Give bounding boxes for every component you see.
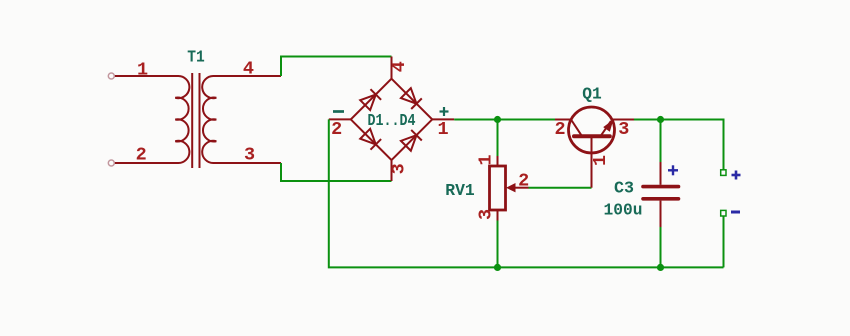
Q1 base bar	[574, 134, 610, 138]
wire RV1 pin3 down to 0V rail	[497, 221, 499, 268]
bridge minus mark	[333, 110, 344, 113]
svg-text:2: 2	[518, 171, 529, 192]
svg-text:1: 1	[476, 154, 497, 165]
Q1 emitter diagonal with arrow	[601, 121, 612, 136]
wire T1 pin4 to bridge AC top	[281, 57, 392, 77]
terminal minus mark	[731, 211, 740, 214]
svg-text:C3: C3	[614, 179, 634, 198]
output terminal plus	[721, 170, 726, 176]
Q1 emitter pin stub (pin 3)	[612, 119, 634, 121]
wire 0V rail up to minus terminal	[723, 216, 725, 267]
RV1 wiper arrow	[513, 187, 529, 189]
wire plus rail down to C3	[660, 120, 662, 163]
svg-text:Q1: Q1	[582, 85, 602, 104]
svg-text:2: 2	[331, 119, 342, 140]
primary winding	[114, 76, 189, 163]
potentiometer RV1	[490, 166, 506, 210]
junction dot 0V rail / RV1	[494, 264, 501, 271]
T1 pin 1 open end circle	[108, 73, 114, 79]
terminal plus mark	[732, 171, 741, 180]
svg-text:4: 4	[389, 61, 410, 72]
svg-text:3: 3	[244, 145, 255, 166]
Q1 body circle	[569, 107, 615, 153]
junction dot plus rail / C3	[657, 116, 664, 123]
C3 top pin stub	[660, 162, 662, 185]
svg-text:1: 1	[437, 119, 448, 140]
wire C3 down to 0V rail	[660, 227, 662, 267]
svg-text:2: 2	[554, 119, 565, 140]
C3 bottom pin stub	[660, 201, 662, 227]
transformer T1	[114, 73, 281, 168]
diode D (bottom-right)	[401, 130, 422, 151]
diamond body	[351, 79, 432, 160]
svg-text:4: 4	[243, 59, 254, 80]
junction dot plus rail / RV1	[494, 116, 501, 123]
wire RV1 wiper to Q1 base	[529, 187, 592, 189]
wire T1 pin3 to bridge AC bottom	[281, 163, 392, 181]
Q1 collector diagonal	[571, 120, 582, 137]
wire plus rail down to RV1 pin1	[497, 120, 499, 157]
wire bridge minus down to 0V rail	[329, 119, 724, 267]
svg-text:D1..D4: D1..D4	[368, 112, 416, 131]
Q1 collector pin stub (pin 2)	[555, 119, 571, 121]
diode D (top-right)	[401, 88, 422, 109]
svg-text:RV1: RV1	[445, 182, 475, 201]
pin stub AC bottom (pin 3)	[391, 160, 393, 181]
svg-text:3: 3	[388, 163, 409, 174]
RV1 pin 3 stub	[497, 210, 499, 221]
Q1 base pin stub (pin 1)	[591, 138, 593, 188]
C3 bottom plate	[643, 197, 679, 201]
svg-text:100u: 100u	[604, 202, 643, 221]
bridge plus mark	[440, 107, 449, 116]
wire Q1 emitter to plus terminal	[634, 120, 724, 170]
C3 top plate	[643, 185, 679, 189]
wire bridge plus to Q1 collector	[454, 119, 557, 121]
svg-text:1: 1	[590, 155, 611, 166]
secondary winding	[202, 76, 281, 163]
T1 pin 2 open end circle	[108, 160, 114, 166]
C3 polarity plus mark	[668, 165, 678, 175]
core	[191, 73, 193, 168]
svg-text:1: 1	[137, 60, 148, 81]
svg-text:3: 3	[618, 119, 629, 140]
RV1 pin 1 stub	[497, 156, 499, 166]
pin stub minus (pin 2)	[329, 118, 351, 120]
svg-text:T1: T1	[187, 49, 205, 68]
diode D (bottom-left)	[360, 128, 381, 149]
junction dot 0V rail / C3	[657, 264, 664, 271]
svg-text:2: 2	[136, 145, 147, 166]
output terminal minus	[721, 210, 726, 216]
pin stub plus (pin 1)	[432, 118, 454, 120]
diode D (top-left)	[360, 89, 381, 110]
bridge rectifier D1..D4	[329, 57, 454, 182]
svg-text:3: 3	[476, 209, 497, 220]
pin stub AC top (pin 4)	[391, 57, 393, 79]
